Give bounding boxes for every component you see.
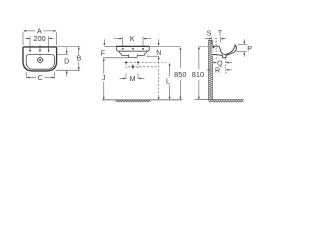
floor [195,99,244,101]
dimension A [22,32,24,45]
svg-text:850: 850 [174,70,186,79]
dimension 850 [180,47,182,50]
svg-text:B: B [77,56,82,63]
floor line [102,99,183,101]
basin side profile: bowl [213,45,236,54]
dimension J [103,58,105,61]
level line (left, basin bottom) [103,57,129,59]
svg-text:D: D [64,59,69,66]
svg-text:L: L [166,78,170,85]
dimension M [125,73,127,79]
810 dimension [198,46,200,49]
hidden drain dashed line [128,66,157,68]
S/T dimension line [205,38,209,40]
center tap hole tick [39,45,41,47]
svg-text:J: J [102,75,106,82]
svg-text:200: 200 [33,34,45,43]
wall [208,40,210,99]
svg-text:T: T [218,30,223,37]
dimension N vertical (dashed) [158,56,160,59]
dimension B [78,47,80,50]
svg-text:810: 810 [192,70,204,79]
basin side profile: outer shell [213,45,237,57]
R dimension [207,69,210,71]
dimension 200 [29,36,31,46]
P dimension [238,43,247,45]
svg-text:F: F [101,51,105,58]
floor hatch [116,100,151,102]
dimension L [169,63,171,66]
dimension D [66,47,68,51]
underside profile [119,51,147,57]
level line (right) [146,55,159,57]
F leader arrow [103,39,105,43]
drain mark (diamond) [131,65,134,68]
dimension K [121,37,123,46]
tap hole center dashed line [215,41,217,61]
Q dimension [213,62,216,64]
tap holes (3 rings) [122,48,124,50]
basin inner bowl [26,55,54,70]
svg-text:M: M [130,76,136,83]
drain circle [38,58,43,63]
svg-text:K: K [130,36,135,43]
N leader arrow [158,39,160,43]
extension lines to B / D [57,46,80,48]
fixing hole dashed line [225,58,227,71]
svg-text:S: S [207,30,212,37]
svg-text:P: P [247,46,252,53]
tap hole arrows (3) [29,48,31,50]
svg-text:C: C [38,75,43,82]
hidden fixing holes dashed line [126,61,166,63]
rim band [116,46,149,51]
svg-text:R: R [215,68,220,75]
svg-text:N: N [156,50,161,57]
svg-text:Q: Q [217,61,223,68]
basin outer outline [23,47,57,71]
dimension C [26,72,28,78]
